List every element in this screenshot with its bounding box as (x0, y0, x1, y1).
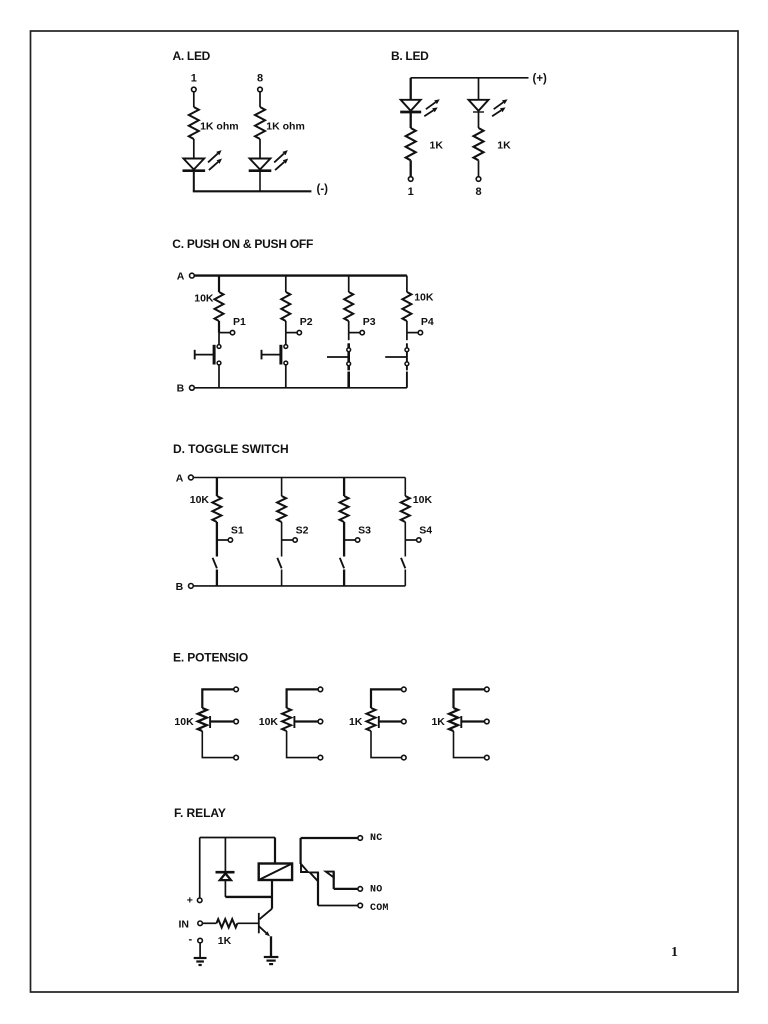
wire supply to + terminal (199, 838, 201, 898)
top supply wire (section F) (200, 837, 275, 839)
wire NC to contact arm (300, 838, 302, 864)
wire resistor to junction (branch S1) (216, 522, 218, 540)
svg-text:B. LED: B. LED (391, 49, 429, 63)
wire switch S3 to bus-B (343, 570, 345, 586)
svg-text:NC: NC (370, 833, 382, 844)
pot VR4 top wire (454, 689, 485, 708)
pot VR2 resistor body (282, 708, 291, 731)
svg-text:P3: P3 (363, 316, 376, 328)
wire bus-A to resistor (branch S2) (281, 478, 283, 497)
junction wire to terminal S3 (344, 539, 355, 541)
wire junction to switch S3 (343, 540, 345, 557)
terminal S4 (417, 538, 421, 542)
push button P4 actuator (385, 356, 407, 358)
pot VR1 bottom terminal (234, 755, 239, 760)
LED D1 emission arrows (section B) (426, 102, 436, 109)
push button P1 contact top (217, 345, 221, 349)
terminal NO (358, 887, 363, 892)
wire junction to switch S2 (281, 540, 283, 557)
terminal IN (198, 921, 203, 926)
wire switch S4 to bus-B (404, 570, 406, 586)
toggle switch S1 blade (213, 558, 217, 569)
svg-text:10K: 10K (414, 292, 434, 304)
push button P1 actuator (195, 354, 214, 356)
junction wire to terminal S1 (217, 539, 228, 541)
wire resistor to terminal (branch 8, section B) (478, 160, 480, 176)
svg-text:P1: P1 (233, 316, 246, 328)
junction wire to terminal P4 (407, 332, 418, 334)
svg-text:10K: 10K (194, 293, 214, 305)
transistor Q1 emitter (259, 926, 266, 933)
wire bus-A to resistor (branch S1) (216, 478, 218, 497)
pot VR4 bottom wire (454, 731, 485, 758)
svg-text:S2: S2 (296, 525, 309, 537)
push button P4 contact top (405, 348, 409, 352)
pot VR2 top wire (287, 689, 318, 708)
transistor Q1 collector (260, 909, 273, 920)
svg-text:B: B (176, 581, 184, 593)
wire bus-A to resistor (branch P1) (218, 276, 220, 292)
NC stationary contact (301, 864, 308, 872)
svg-text:A: A (177, 271, 185, 283)
svg-text:1K ohm: 1K ohm (200, 121, 239, 133)
diode D1 (220, 873, 231, 880)
svg-text:8: 8 (257, 73, 263, 85)
svg-text:1K: 1K (349, 716, 363, 728)
svg-text:F. RELAY: F. RELAY (174, 806, 226, 820)
toggle switch S2 blade (277, 558, 281, 569)
svg-text:10K: 10K (259, 716, 279, 728)
svg-text:S4: S4 (419, 525, 432, 537)
pot VR4 top terminal (485, 687, 490, 692)
pot VR4 wiper terminal (485, 719, 490, 724)
diode D1 cathode bar (216, 871, 235, 874)
resistor 1K (branch 8, section B) (474, 128, 484, 160)
pot VR3 bottom terminal (402, 755, 407, 760)
wire resistor to junction (branch S4) (404, 522, 406, 540)
LED D1 (section A) (183, 159, 204, 170)
resistor 10K (branch P1) (215, 292, 224, 321)
wire supply to diode D1 (224, 838, 226, 872)
ground (- terminal) (194, 957, 207, 959)
svg-text:P4: P4 (421, 316, 434, 328)
pot VR4 wiper (460, 716, 462, 728)
wire supply to relay coil (274, 838, 276, 864)
wire junction to switch S4 (404, 540, 406, 557)
LED D8 (section A) (250, 159, 271, 170)
wire junction to push button P4 (406, 333, 408, 341)
wire push button P3 to bus-B (347, 372, 350, 388)
pot VR1 top terminal (234, 687, 239, 692)
resistor 1K (branch 1, section B) (406, 128, 416, 160)
LED D8 emission arrows (274, 154, 284, 163)
svg-text:(+): (+) (533, 73, 548, 85)
ground (emitter) (264, 956, 279, 958)
wire terminal-1 to resistor (193, 92, 195, 107)
push button P2 contact bottom (284, 361, 288, 365)
wire resistor to junction (branch S3) (343, 522, 345, 540)
pot VR3 top wire (371, 689, 401, 708)
transistor Q1 base bar (258, 913, 260, 933)
wire resistor to junction (branch P2) (285, 321, 287, 333)
toggle switch S4 blade (401, 558, 405, 569)
wire resistor to IN terminal (202, 922, 216, 924)
NO stationary contact (326, 872, 334, 878)
pot VR2 top terminal (318, 687, 323, 692)
wire push button P1 to bus-B (218, 365, 220, 388)
junction wire to terminal P2 (286, 332, 297, 334)
push button P1 contact bottom (217, 361, 221, 365)
terminal P4 (418, 330, 422, 334)
pot VR3 wiper (378, 716, 380, 728)
pot VR3 bottom wire (371, 731, 401, 758)
wire bus-A to resistor (branch P2) (285, 276, 287, 292)
relay moving pole contact (310, 872, 318, 881)
push button P2 actuator (262, 354, 281, 356)
wire bus-A to resistor (branch S4) (404, 478, 406, 497)
bus B wire (section C) (194, 387, 407, 389)
svg-text:1K: 1K (497, 140, 511, 152)
push button P2 bridge bar (279, 345, 282, 365)
wire junction to push button P2 (285, 333, 287, 345)
push button P4 bridge bar (406, 343, 408, 370)
wire bus-A to resistor (branch P4) (406, 276, 408, 292)
wire junction to push button P3 (348, 333, 350, 341)
svg-text:8: 8 (475, 186, 481, 198)
wire resistor to LED D1 (193, 139, 195, 159)
node B terminal (section D) (189, 584, 194, 589)
svg-text:10K: 10K (190, 494, 210, 506)
wire resistor to junction (branch S2) (281, 522, 283, 540)
negative bus wire (section A) (193, 190, 312, 192)
wire push button P2 to bus-B (285, 365, 287, 388)
svg-text:B: B (177, 383, 185, 395)
push button P2 contact top (284, 345, 288, 349)
wire resistor to LED D8 (259, 139, 261, 159)
wire LED D8 to negative bus (259, 171, 261, 192)
push button P3 contact bottom (347, 362, 351, 366)
wire relay coil to collector (271, 880, 273, 909)
toggle switch S3 blade (340, 558, 344, 569)
node B terminal (section C) (190, 385, 195, 390)
svg-text:10K: 10K (174, 716, 194, 728)
resistor 10K (branch P2) (281, 292, 290, 321)
junction wire to terminal P1 (219, 332, 230, 334)
relay coil K1 (259, 864, 292, 881)
svg-text:P2: P2 (300, 316, 313, 328)
junction wire to terminal S4 (405, 539, 416, 541)
wire base to resistor (237, 922, 258, 924)
wire NC contact (301, 837, 358, 839)
pot VR2 wiper terminal (318, 719, 323, 724)
svg-text:(-): (-) (317, 184, 329, 196)
node A terminal (section C) (190, 273, 195, 278)
pot VR1 wiper (209, 716, 211, 728)
terminal 1 (section B) (408, 177, 413, 182)
resistor R8 1K ohm (255, 107, 265, 139)
wire switch S2 to bus-B (281, 570, 283, 586)
pot VR1 top wire (202, 689, 233, 708)
terminal - (section F) (198, 938, 203, 943)
resistor 10K (branch P3) (344, 292, 353, 321)
terminal S2 (293, 538, 297, 542)
svg-text:A. LED: A. LED (173, 49, 211, 63)
LED D1 (section B) (401, 100, 421, 111)
terminal 8 (section A) (258, 87, 263, 92)
wire pole to COM (317, 872, 319, 905)
resistor 10K (branch P4) (402, 292, 411, 321)
pot VR2 bottom terminal (318, 755, 323, 760)
junction wire to terminal S2 (282, 539, 293, 541)
resistor 10K (branch S3) (340, 496, 349, 522)
terminal COM (358, 903, 363, 908)
svg-text:E. POTENSIO: E. POTENSIO (173, 651, 248, 665)
svg-text:1K: 1K (218, 935, 232, 947)
wire emitter to ground (270, 936, 272, 957)
terminal + (section F) (197, 898, 202, 903)
wire resistor to junction (branch P1) (218, 321, 220, 333)
svg-text:1: 1 (671, 945, 678, 960)
LED D1 emission arrows (208, 154, 218, 163)
bus A wire (section D) (193, 477, 405, 479)
wire LED to resistor (branch 1, section B) (410, 112, 412, 128)
svg-text:S3: S3 (358, 525, 371, 537)
wire push button P4 to bus-B (406, 372, 408, 388)
wire junction to switch S1 (216, 540, 218, 557)
terminal P1 (230, 330, 234, 334)
svg-text:+: + (187, 894, 193, 906)
wire diode D1 to junction (224, 880, 226, 897)
wire LED D1 to negative bus (193, 171, 195, 192)
terminal S1 (228, 538, 232, 542)
bus B wire (section D) (193, 585, 405, 587)
push button P3 actuator (327, 356, 349, 358)
terminal P2 (297, 330, 301, 334)
junction wire to terminal P3 (349, 332, 360, 334)
bus A wire (section C) (194, 274, 407, 276)
svg-text:1K ohm: 1K ohm (266, 121, 305, 133)
pot VR2 bottom wire (287, 731, 318, 758)
resistor R1 1K ohm (189, 107, 199, 139)
svg-text:NO: NO (370, 885, 382, 896)
svg-text:1: 1 (408, 186, 414, 198)
terminal 8 (section B) (476, 177, 481, 182)
LED D8 emission arrows (section B) (494, 102, 504, 109)
pot VR1 wiper terminal (234, 719, 239, 724)
svg-text:10K: 10K (413, 494, 433, 506)
wire switch S1 to bus-B (216, 570, 218, 586)
pot VR2 wiper (293, 716, 295, 728)
wire resistor to terminal (branch 1, section B) (410, 160, 412, 176)
terminal NC (358, 836, 363, 841)
LED D8 (section B) (469, 100, 489, 111)
pot VR1 resistor body (198, 708, 207, 731)
pot VR1 bottom wire (202, 731, 233, 758)
wire LED to resistor (branch 8, section B) (478, 112, 480, 128)
terminal P3 (360, 330, 364, 334)
push button P1 bridge bar (213, 345, 216, 365)
wire bus to LED D1 (section B) (410, 78, 412, 100)
wire NO contact (333, 872, 335, 889)
push button P3 bridge bar (347, 343, 350, 370)
wire bus-A to resistor (branch P3) (348, 276, 350, 292)
svg-text:1K: 1K (431, 716, 445, 728)
svg-text:D. TOGGLE SWITCH: D. TOGGLE SWITCH (173, 442, 289, 456)
node A terminal (section D) (189, 475, 194, 480)
wire terminal-8 to resistor (259, 92, 261, 107)
terminal S3 (355, 538, 359, 542)
pot VR4 resistor body (449, 708, 458, 731)
wire resistor to junction (branch P4) (406, 321, 408, 333)
resistor 1K (base) (217, 919, 238, 927)
push button P3 contact top (347, 348, 351, 352)
wire resistor to junction (branch P3) (348, 321, 350, 333)
resistor 10K (branch S4) (401, 496, 410, 522)
pot VR3 top terminal (402, 687, 407, 692)
svg-text:1: 1 (191, 73, 197, 85)
wire bus-A to resistor (branch S3) (343, 478, 345, 497)
svg-text:IN: IN (179, 918, 190, 930)
pot VR3 wiper terminal (402, 719, 407, 724)
pot VR3 resistor body (367, 708, 376, 731)
wire junction to push button P1 (218, 333, 220, 345)
svg-text:C. PUSH ON & PUSH OFF: C. PUSH ON & PUSH OFF (172, 237, 313, 251)
pot VR4 bottom terminal (485, 755, 490, 760)
svg-text:A: A (176, 472, 184, 484)
terminal 1 (section A) (192, 87, 197, 92)
svg-text:-: - (189, 933, 193, 945)
positive bus wire (section B) (411, 77, 529, 79)
svg-text:COM: COM (370, 903, 389, 914)
resistor 10K (branch S1) (212, 496, 221, 522)
svg-text:1K: 1K (430, 140, 444, 152)
resistor 10K (branch S2) (277, 496, 286, 522)
push button P4 contact bottom (405, 362, 409, 366)
wire - terminal to ground (199, 943, 201, 958)
wire bus to LED D8 (section B) (478, 78, 480, 100)
svg-text:S1: S1 (231, 525, 244, 537)
